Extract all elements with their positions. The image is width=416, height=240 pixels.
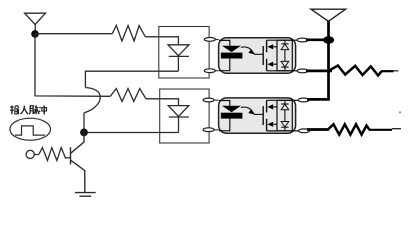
thick wire U1 pin6 to bus (306, 38, 329, 41)
thick wire U1 pin4 to R3 (306, 70, 332, 73)
U2 pin 4 (bottom right) (299, 129, 310, 133)
transistor Q1 (71, 133, 85, 193)
wire terminal to R5 (34, 154, 39, 156)
U2 light coupling arrow (241, 107, 255, 115)
U2 clamp diode block (277, 100, 292, 131)
junction dot node C (80, 129, 88, 137)
U2 LED LED2 anode wire (219, 101, 230, 106)
U2 clamp diode center wire (284, 100, 286, 131)
wire hop to junction (83, 113, 85, 129)
resistor R5 (39, 148, 70, 161)
U2 internals (219, 100, 303, 131)
U1 LED LED1 cathode bar (221, 53, 243, 59)
U2 drain rail top (267, 99, 303, 101)
photoMOS relay U1 body (219, 38, 296, 73)
diode D1 (168, 45, 189, 71)
U1 clamp diode center wire (284, 40, 286, 71)
U1 pin 6 (top right) (297, 38, 308, 42)
U1 pin 4 (bottom right) (297, 69, 308, 73)
U1 LED LED1 anode wire (219, 40, 230, 45)
wire node A down and right to R2 (35, 34, 110, 96)
U2 pin 1 (203, 98, 219, 102)
wire hop over net A (84, 88, 100, 113)
U1 drain rail top (267, 39, 303, 41)
U1 clamp diode D4 (281, 61, 289, 67)
U1 MOSFET Q3 body arrow (267, 62, 273, 67)
ground (75, 193, 96, 197)
label 输入脉冲 (input pulse) (10, 105, 46, 114)
wire R3 tail (381, 70, 394, 72)
U1 MOSFET Q3 source link (273, 63, 277, 65)
U2 MOSFET Q5 body arrow (267, 122, 273, 127)
wire node A to R1 (35, 33, 112, 35)
U1 internals (219, 40, 303, 71)
U2 MOSFET Q4 body arrow (267, 104, 273, 109)
U2 drain rail bottom (267, 130, 303, 132)
U2 clamp diode D5 (281, 104, 289, 110)
speck artifact (399, 111, 401, 113)
U1 clamp diode block (277, 40, 292, 71)
resistor R2 (110, 89, 146, 102)
U1 MOSFET Q3 channel (266, 59, 268, 71)
U2 MOSFET Q5 source link (273, 123, 277, 125)
U1 pin 1 (204, 38, 219, 42)
thick wire ANT2 vertical bus (327, 21, 330, 100)
U1 MOSFET Q2 channel (266, 40, 268, 52)
U2 LED LED2 cathode bar (221, 113, 243, 119)
diode D2 (168, 106, 189, 133)
U1 drain rail bottom (267, 70, 303, 72)
antenna ANT2 (311, 9, 346, 21)
U1 MOSFET gate bar (262, 46, 264, 65)
U2 LED LED2 triangle (222, 106, 241, 112)
junction dot node A (31, 30, 39, 38)
U2 MOSFET Q4 source link (273, 106, 277, 108)
wire R4 tail (369, 129, 392, 131)
box around diode D1 (159, 27, 209, 79)
antenna ANT1 (25, 13, 46, 31)
photoMOS relay U2 body (219, 98, 296, 133)
U2 LED LED2 cathode wire (219, 119, 230, 131)
U1 light coupling arrow (241, 47, 255, 55)
wire D1 cathode going left (net B) (85, 71, 178, 87)
wire R1 to diode D1 anode (145, 37, 178, 45)
pulse source symbol (10, 118, 51, 140)
U1 MOSFET Q2 source link (273, 46, 277, 48)
U1 pin 2 (204, 69, 219, 73)
U1 LED LED1 triangle (222, 46, 241, 52)
U2 clamp diode D6 (281, 122, 289, 128)
U2 pin 6 (top right) (298, 98, 309, 102)
U1 gate feed wire (254, 53, 263, 55)
U1 LED LED1 cathode wire (219, 59, 230, 71)
U2 MOSFET Q4 channel (266, 100, 268, 112)
thick wire U2 pin4 to R4 (307, 128, 329, 131)
junction dot on bus (323, 36, 334, 43)
resistor R3 (thick) (328, 66, 382, 76)
U2 MOSFET gate bar (262, 106, 264, 125)
resistor R1 (112, 26, 145, 42)
U1 clamp diode D3 (281, 44, 289, 50)
thick wire bus to U2 pin6 (307, 98, 330, 101)
wire R2 to diode D2 anode (146, 99, 179, 106)
U2 pin 2 (203, 128, 219, 132)
U2 gate feed wire (254, 113, 263, 115)
box around diode D2 (160, 89, 209, 143)
U1 MOSFET Q2 body arrow (267, 44, 273, 49)
resistor R4 (thick) (328, 124, 370, 134)
input terminal circle (26, 150, 34, 158)
wire D2 cathode to junction node C (84, 132, 179, 134)
U2 MOSFET Q5 channel (266, 119, 268, 131)
